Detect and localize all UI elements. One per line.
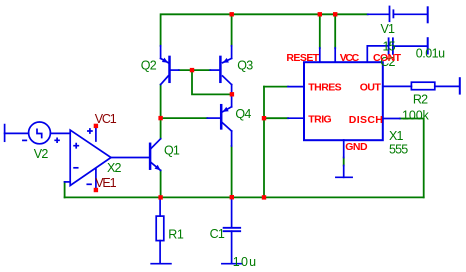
- svg-text:Q1: Q1: [164, 144, 180, 158]
- node base link: [190, 68, 194, 72]
- wire base-to-collector loop: [192, 70, 230, 94]
- svg-text:VC1: VC1: [95, 112, 117, 126]
- wire top rail with left drop: [161, 14, 368, 46]
- wire Q1 emitter drop: [160, 170, 162, 197]
- node Q3 collector: [230, 92, 234, 96]
- wire rail drop to VCC: [334, 14, 336, 48]
- svg-text:TRIG: TRIG: [308, 113, 331, 125]
- svg-text:R2: R2: [413, 93, 428, 107]
- pin THRES stub: [288, 86, 304, 88]
- wire Q4 base: [161, 117, 208, 119]
- svg-text:X1: X1: [389, 129, 404, 143]
- resistor R2: [411, 78, 459, 93]
- wire feedback: [64, 182, 66, 198]
- pin VCC stub: [334, 48, 336, 62]
- svg-text:V1: V1: [381, 22, 396, 36]
- pin RESET stub: [319, 48, 321, 62]
- node VC1: [94, 124, 98, 128]
- wire THRES: [264, 86, 288, 88]
- svg-text:555: 555: [389, 143, 408, 157]
- pin GND stub and ground: [343, 140, 345, 158]
- svg-text:0.01u: 0.01u: [416, 47, 445, 61]
- node rail-RESET: [318, 12, 322, 16]
- svg-text:Q3: Q3: [237, 58, 253, 72]
- svg-text:V2: V2: [34, 147, 49, 161]
- pin TRIG stub: [288, 117, 304, 119]
- capacitor C2: [389, 38, 428, 54]
- svg-text:X2: X2: [107, 161, 122, 175]
- svg-text:R1: R1: [168, 227, 184, 241]
- wire Q4 collector drop: [231, 146, 233, 197]
- svg-text:10u: 10u: [233, 255, 257, 269]
- node bottom-Q1: [158, 195, 162, 199]
- svg-text:VCC: VCC: [340, 52, 360, 64]
- node rail-VCC: [333, 12, 337, 16]
- node Q4 base tap: [158, 116, 162, 120]
- pin OUT lead: [383, 85, 411, 87]
- node bottom-TRIG vertical: [262, 195, 266, 199]
- wire left mid vertical: [160, 85, 162, 139]
- pin DISCH stub: [383, 118, 400, 120]
- transistor Q4: [207, 96, 231, 146]
- transistor Q1: [150, 139, 161, 171]
- node bottom-C1: [230, 195, 234, 199]
- svg-text:RESET: RESET: [286, 52, 319, 64]
- wire rail drop to Q3 emitter: [231, 14, 233, 46]
- svg-text:Q2: Q2: [141, 58, 157, 72]
- wire rail drop to RESET: [319, 14, 321, 48]
- wire Q2-Q3 base link: [179, 69, 211, 71]
- svg-text:Q4: Q4: [235, 107, 251, 121]
- wire DISCH riser: [400, 119, 424, 198]
- node TRIG tap: [262, 116, 266, 120]
- voltage source V2: [5, 122, 71, 144]
- IC X1 555 box: [288, 46, 411, 177]
- resistor R1: [151, 197, 171, 263]
- svg-text:CONT: CONT: [373, 52, 402, 64]
- node rail-Q3: [230, 12, 234, 16]
- pin CONT stub: [367, 46, 387, 62]
- transistor Q2: [161, 46, 179, 85]
- transistor Q3: [210, 46, 231, 92]
- svg-text:100k: 100k: [402, 108, 430, 122]
- svg-text:OUT: OUT: [360, 81, 382, 93]
- capacitor C1: [222, 197, 242, 263]
- svg-text:VE1: VE1: [95, 176, 116, 190]
- svg-text:GND: GND: [345, 141, 368, 153]
- svg-text:THRES: THRES: [308, 82, 341, 94]
- wire bottom rail: [65, 196, 424, 198]
- wire TRIG: [264, 117, 288, 119]
- wire GND segment: [343, 158, 345, 166]
- wire THRES-TRIG vertical: [263, 87, 265, 198]
- node VE1: [94, 188, 98, 192]
- svg-text:DISCH: DISCH: [349, 114, 383, 126]
- svg-text:C1: C1: [210, 227, 225, 241]
- battery V1: [368, 7, 428, 23]
- op-amp U1 (X2): [65, 126, 149, 190]
